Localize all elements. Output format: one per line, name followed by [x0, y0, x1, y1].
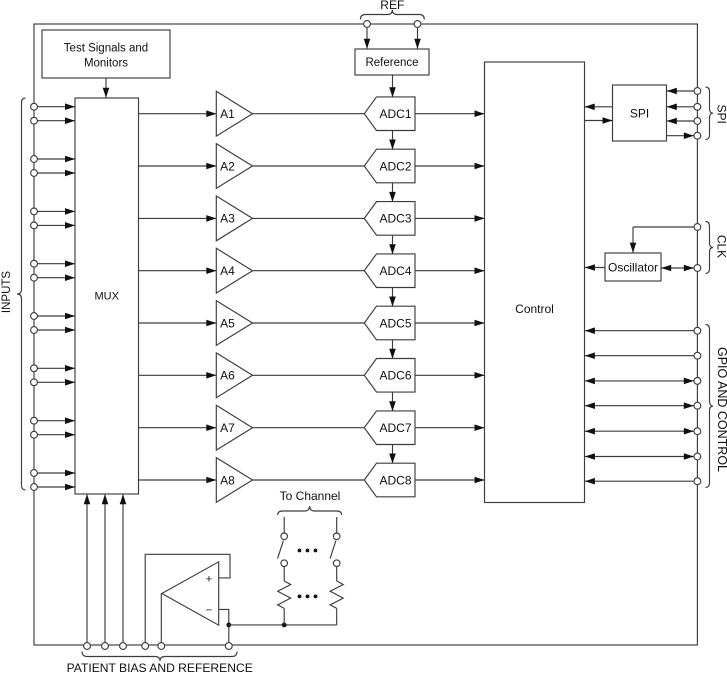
pin GPIO2	[694, 352, 701, 359]
wire A2 to ADC2	[253, 165, 365, 167]
block Oscillator	[605, 253, 661, 281]
wire resistor Rn to bias node	[336, 608, 338, 625]
wire switch Sn to resistor Rn	[336, 567, 338, 582]
svg-text:ADC4: ADC4	[379, 264, 411, 278]
wire SPI to DOUT pin	[667, 132, 694, 139]
svg-text:A4: A4	[220, 264, 235, 278]
switch Sn blade	[330, 541, 336, 559]
wire IN5N to MUX	[37, 327, 75, 334]
pin REFP	[364, 21, 371, 28]
amplifier A4	[216, 248, 252, 293]
input pin IN5N	[31, 327, 38, 334]
svg-text:Monitors: Monitors	[84, 58, 128, 70]
wire MUX to A8	[139, 477, 217, 484]
wire resistor R1 to bias node	[283, 608, 285, 625]
svg-text:A3: A3	[220, 212, 235, 226]
wire IN2P to MUX	[37, 156, 75, 163]
wire IN7P to MUX	[37, 417, 75, 424]
input pin IN4P	[31, 260, 38, 267]
wire ADC4 to Control	[415, 267, 485, 274]
wire Control to GPIO5 (bidirectional)	[585, 428, 694, 435]
wire IN2N to MUX	[37, 170, 75, 177]
wire IN4N to MUX	[37, 274, 75, 281]
wire ADC5 to ADC6 reference chain	[389, 340, 396, 359]
wire Control to GPIO7	[585, 478, 694, 485]
svg-text:ADC6: ADC6	[379, 369, 411, 383]
pin bias reference 3	[120, 643, 127, 650]
wire IN3P to MUX	[37, 208, 75, 215]
block Test Signals and Monitors	[42, 30, 170, 78]
input pin IN8N	[31, 484, 38, 491]
svg-text:PATIENT BIAS AND REFERENCE: PATIENT BIAS AND REFERENCE	[67, 661, 253, 674]
wire IN1N to MUX	[37, 117, 75, 124]
wire ADC3 to ADC4 reference chain	[389, 235, 396, 254]
wire ADC1 to Control	[415, 110, 485, 117]
wire A5 to ADC5	[253, 322, 365, 324]
wire ADC2 to Control	[415, 163, 485, 170]
input pin IN6N	[31, 379, 38, 386]
wire A1 to ADC1	[253, 113, 365, 115]
input pin IN2N	[31, 170, 38, 177]
wire IN7N to MUX	[37, 431, 75, 438]
wire bias pin 3 to MUX	[120, 494, 127, 642]
svg-text:A1: A1	[220, 107, 235, 121]
input pin IN7P	[31, 417, 38, 424]
pin bias reference 1	[84, 643, 91, 650]
switch Sn top contact	[333, 533, 340, 540]
wire MUX to A7	[139, 424, 217, 431]
wire Test Signals to MUX	[103, 78, 110, 98]
block SPI	[613, 85, 667, 141]
pin patient bias inverting input	[225, 643, 232, 650]
input pin IN5P	[31, 313, 38, 320]
wire switch S1 to resistor R1	[283, 567, 285, 582]
svg-text:ADC7: ADC7	[379, 421, 411, 435]
svg-text:INPUTS: INPUTS	[1, 271, 13, 314]
wire MUX to A6	[139, 372, 217, 379]
adc ADC6	[364, 359, 415, 393]
svg-text:Control: Control	[515, 302, 554, 316]
wire IN3N to MUX	[37, 222, 75, 229]
input pin IN3N	[31, 222, 38, 229]
wire SPI to Control	[585, 104, 613, 111]
wire brace to switch Sn	[336, 517, 338, 533]
svg-text:A8: A8	[220, 473, 235, 487]
svg-text:To Channel: To Channel	[280, 489, 341, 503]
wire brace to switch S1	[283, 517, 285, 533]
input pin IN3P	[31, 208, 38, 215]
brace for SPI pins	[706, 87, 714, 140]
wire ADC3 to Control	[415, 215, 485, 222]
svg-text:ADC8: ADC8	[379, 473, 411, 487]
wire REFN pin to Reference block	[414, 27, 421, 48]
wire ADC6 to ADC7 reference chain	[389, 392, 396, 411]
svg-text:ADC5: ADC5	[379, 316, 411, 330]
wire A8 to ADC8	[253, 479, 365, 481]
svg-text:SPI: SPI	[630, 106, 649, 120]
svg-text:MUX: MUX	[95, 291, 120, 303]
switch S1 top contact	[281, 533, 288, 540]
amplifier A7	[216, 405, 252, 450]
wire ADC1 to ADC2 reference chain	[389, 131, 396, 150]
wire MUX to A4	[139, 267, 217, 274]
svg-text:A5: A5	[220, 316, 235, 330]
amplifier A8	[216, 458, 252, 503]
wire op-amp output to pin	[160, 594, 162, 643]
adc ADC4	[364, 254, 415, 288]
svg-text:+: +	[206, 573, 212, 585]
pin GPIO5	[694, 428, 701, 435]
wire ADC2 to ADC3 reference chain	[389, 183, 396, 202]
pin bias reference 2	[102, 643, 109, 650]
block Control	[485, 62, 585, 503]
adc ADC3	[364, 202, 415, 236]
svg-text:−: −	[206, 605, 212, 617]
pin REFN	[414, 21, 421, 28]
adc ADC5	[364, 306, 415, 340]
input pin IN1P	[31, 103, 38, 110]
wire IN6N to MUX	[37, 379, 75, 386]
input pin IN8P	[31, 470, 38, 477]
brace for CLK pins	[706, 222, 714, 274]
wire bias pin 1 to MUX	[84, 494, 91, 642]
wire Control to GPIO6 (bidirectional)	[585, 453, 694, 460]
wire Reference to ADC1	[389, 75, 396, 97]
svg-text:Oscillator: Oscillator	[608, 260, 658, 274]
ellipsis dots between switches	[298, 549, 318, 553]
amplifier A1	[216, 91, 252, 136]
block MUX	[75, 98, 139, 494]
wire Control to GPIO1	[585, 327, 694, 334]
wire MUX to A2	[139, 163, 217, 170]
wire A6 to ADC6	[253, 374, 365, 376]
pin DIN	[694, 118, 701, 125]
pin DOUT	[694, 132, 701, 139]
wire MUX to A1	[139, 110, 217, 117]
wire ADC5 to Control	[415, 320, 485, 327]
svg-text:ADC2: ADC2	[379, 159, 411, 173]
wire Oscillator to Control	[585, 264, 605, 271]
input pin IN1N	[31, 117, 38, 124]
input pin IN2P	[31, 156, 38, 163]
wire A3 to ADC3	[253, 217, 365, 219]
brace for INPUTS pins	[17, 98, 26, 490]
wire ADC8 to Control	[415, 477, 485, 484]
svg-text:A6: A6	[220, 369, 235, 383]
adc ADC1	[364, 97, 415, 131]
svg-text:SPI: SPI	[715, 105, 727, 124]
svg-text:GPIO AND CONTROL: GPIO AND CONTROL	[715, 347, 727, 472]
svg-text:Reference: Reference	[365, 57, 418, 69]
wire ADC7 to Control	[415, 424, 485, 431]
wire Control to GPIO4 (bidirectional)	[585, 402, 694, 409]
pin patient bias output	[158, 643, 165, 650]
wire CS pin to SPI	[667, 88, 694, 95]
adc ADC8	[364, 463, 415, 497]
input pin IN6P	[31, 365, 38, 372]
wire MUX to A3	[139, 215, 217, 222]
resistor R1	[278, 581, 291, 608]
amplifier A3	[216, 196, 252, 241]
wire IN4P to MUX	[37, 260, 75, 267]
wire Oscillator to CLK pin (bidirectional)	[661, 265, 694, 272]
pin patient bias noninverting input	[142, 643, 149, 650]
adc ADC2	[364, 149, 415, 183]
svg-text:A2: A2	[220, 159, 235, 173]
pin GPIO6	[694, 453, 701, 460]
wire IN6P to MUX	[37, 365, 75, 372]
brace for To Channel switches	[278, 506, 342, 515]
switch Sn bottom contact	[333, 560, 340, 567]
amplifier A2	[216, 144, 252, 189]
pin GPIO1	[694, 327, 701, 334]
input pin IN4N	[31, 274, 38, 281]
wire DIN pin to SPI	[667, 118, 694, 125]
wire bias pin 2 to MUX	[102, 494, 109, 642]
svg-text:ADC3: ADC3	[379, 212, 411, 226]
pin GPIO3	[694, 378, 701, 385]
op-amp patient bias amplifier	[162, 562, 219, 625]
brace for GPIO pins	[706, 325, 714, 488]
wire IN1P to MUX	[37, 103, 75, 110]
pin GPIO7	[694, 478, 701, 485]
pin GPIO4	[694, 402, 701, 409]
wire ADC7 to ADC8 reference chain	[389, 445, 396, 464]
wire REFP pin to Reference block	[364, 27, 371, 48]
wire IN8P to MUX	[37, 470, 75, 477]
brace for REF pins	[360, 10, 424, 20]
wire SCLK pin to SPI	[667, 104, 694, 111]
pin CLK	[694, 265, 701, 272]
wire op-amp inverting input to feedback node	[219, 609, 229, 642]
wire ADC4 to ADC5 reference chain	[389, 288, 396, 307]
adc ADC7	[364, 411, 415, 445]
amplifier A6	[216, 353, 252, 398]
svg-text:CLK: CLK	[715, 235, 727, 258]
junction at feedback node	[226, 623, 231, 628]
wire Control to GPIO3 (bidirectional)	[585, 378, 694, 385]
input pin IN7N	[31, 431, 38, 438]
wire IN8N to MUX	[37, 484, 75, 491]
wire A4 to ADC4	[253, 270, 365, 272]
wire CLKSEL pin to Oscillator	[630, 227, 694, 253]
brace for patient bias pins	[82, 652, 237, 662]
pin CLKSEL	[694, 224, 701, 231]
switch S1 blade	[278, 541, 284, 559]
block Reference	[355, 49, 429, 75]
pin CS	[694, 88, 701, 95]
junction at left resistor bottom	[282, 623, 287, 628]
wire Control to GPIO2	[585, 352, 694, 359]
amplifier A5	[216, 301, 252, 346]
wire feedback node to resistor network	[229, 624, 337, 626]
wire Control to SPI	[585, 117, 613, 124]
wire MUX to A5	[139, 320, 217, 327]
svg-text:A7: A7	[220, 421, 235, 435]
svg-text:ADC1: ADC1	[379, 107, 411, 121]
wire op-amp noninverting input loop	[145, 554, 230, 642]
wire A7 to ADC7	[253, 427, 365, 429]
wire ADC6 to Control	[415, 372, 485, 379]
svg-text:Test Signals and: Test Signals and	[64, 42, 148, 54]
switch S1 bottom contact	[281, 560, 288, 567]
pin SCLK	[694, 103, 701, 110]
wire IN5P to MUX	[37, 313, 75, 320]
ellipsis dots between resistors	[298, 595, 318, 599]
resistor Rn	[330, 581, 343, 608]
